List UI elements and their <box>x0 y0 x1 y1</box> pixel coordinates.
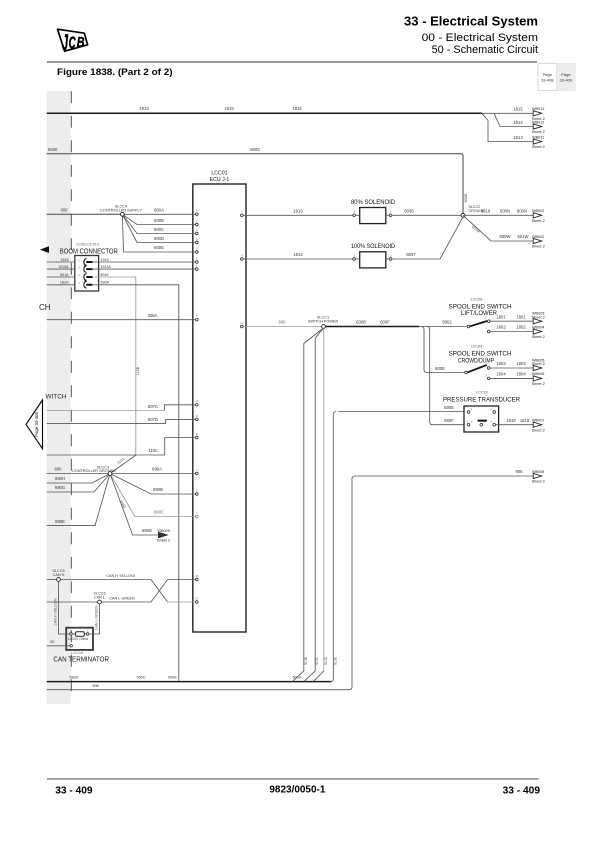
off-page arrow WB004 <box>532 325 545 339</box>
node SLCC5 CAN H <box>52 569 64 582</box>
svg-text:Page 33-408: Page 33-408 <box>34 411 39 436</box>
svg-text:600B: 600B <box>356 320 366 325</box>
svg-text:LIFT/LOWER: LIFT/LOWER <box>461 310 497 317</box>
ECU pins 1-7 (left, supply & boom inputs) <box>196 209 199 271</box>
svg-text:LCC09: LCC09 <box>471 345 483 349</box>
wire 800 from page edge <box>47 207 121 214</box>
svg-text:1915: 1915 <box>224 106 234 111</box>
ECU pin 12 (807D) <box>195 414 199 421</box>
svg-text:CAN L: CAN L <box>94 595 105 599</box>
ECU pins (right: 1913,1914) <box>241 210 244 261</box>
svg-text:910C: 910C <box>315 656 319 665</box>
off-page arrow WB009 <box>157 529 170 543</box>
svg-text:910D: 910D <box>324 656 328 665</box>
svg-text:6019: 6019 <box>481 208 491 213</box>
wire CAN L green <box>47 580 196 603</box>
svg-text:1818: 1818 <box>520 418 530 423</box>
svg-text:LCC10: LCC10 <box>476 390 488 394</box>
svg-text:807C: 807C <box>148 404 158 409</box>
svg-text:6030: 6030 <box>48 147 58 152</box>
svg-text:CONTROLLER SUPPLY: CONTROLLER SUPPLY <box>100 209 142 213</box>
wire 1913A boom row2 to ECU <box>93 268 195 270</box>
svg-text:120.00 Ohms: 120.00 Ohms <box>68 637 89 641</box>
wire 6019/600N to WB001 <box>465 208 533 215</box>
svg-text:WB006: WB006 <box>532 372 544 376</box>
svg-text:SWITCH POWER: SWITCH POWER <box>308 320 339 324</box>
wire CAN L drop to terminator <box>89 604 100 634</box>
svg-text:33-409: 33-409 <box>560 78 573 83</box>
boom connector row 1: 1815/1913 <box>47 258 109 266</box>
svg-text:Sheet 2: Sheet 2 <box>532 480 545 484</box>
wire 801E/110B boom row3 down <box>93 277 136 455</box>
boom connector gang links <box>85 264 87 266</box>
svg-text:0D: 0D <box>50 640 55 644</box>
wire 690C (grey) <box>110 474 197 517</box>
wire 600 (grey) <box>243 320 321 327</box>
switch LCC09 SPOOL END SWITCH CROWD/DUMP <box>449 345 512 380</box>
wire 690H <box>47 474 110 484</box>
off-page wedge at boom connector <box>40 246 49 253</box>
switch LCC08 SPOOL END SWITCH LIFT/LOWER <box>449 297 512 333</box>
svg-text:182H: 182H <box>60 281 69 285</box>
svg-text:WITCH: WITCH <box>46 394 67 401</box>
wire CAN H yellow <box>47 574 196 602</box>
off-page arrow WB012 <box>532 120 545 134</box>
svg-text:LCC01: LCC01 <box>211 171 227 177</box>
svg-text:601W: 601W <box>518 234 529 239</box>
svg-text:908: 908 <box>516 469 524 474</box>
resistor R 120 Ohms <box>68 628 89 640</box>
wire 308A <box>47 313 196 320</box>
svg-text:1802: 1802 <box>516 325 526 330</box>
svg-text:WB012: WB012 <box>532 120 544 124</box>
ECU pins 18,17 (CAN) <box>195 574 199 603</box>
ECU pin 14 (807C) <box>195 399 199 406</box>
svg-text:80% SOLENOID: 80% SOLENOID <box>351 199 395 206</box>
svg-text:Sheet 2: Sheet 2 <box>532 130 545 134</box>
svg-text:801E: 801E <box>101 273 110 277</box>
transducer LCC10 PRESSURE TRANSDUCER <box>443 390 520 432</box>
wire 690F branch to transducer <box>427 327 467 425</box>
svg-text:1915A: 1915A <box>58 265 69 269</box>
svg-text:690B: 690B <box>153 487 163 492</box>
page reference arrow Page 33-408 <box>26 400 43 449</box>
svg-text:1913: 1913 <box>101 258 109 262</box>
svg-text:500A: 500A <box>293 676 302 680</box>
svg-text:600F: 600F <box>380 320 390 325</box>
svg-text:690D: 690D <box>142 528 152 533</box>
svg-text:1815: 1815 <box>292 106 302 111</box>
svg-text:6039: 6039 <box>464 194 468 202</box>
svg-text:1803: 1803 <box>496 361 506 366</box>
svg-text:800D: 800D <box>154 236 164 241</box>
svg-text:1913A: 1913A <box>101 265 112 269</box>
svg-text:Sheet 2: Sheet 2 <box>532 335 545 339</box>
svg-text:CAN TERMINATOR: CAN TERMINATOR <box>53 657 109 664</box>
solenoid L1 80% <box>351 199 395 224</box>
svg-text:690H: 690H <box>55 476 65 481</box>
off-page arrow WB007 <box>532 419 545 433</box>
svg-text:WB008: WB008 <box>532 470 544 474</box>
svg-text:590D: 590D <box>69 676 78 680</box>
page-boundary dashed line <box>70 91 72 703</box>
svg-text:690F: 690F <box>444 418 454 423</box>
wire 800E <box>122 214 195 252</box>
wire 908 rail <box>47 469 534 690</box>
wire 690 <box>47 467 108 474</box>
svg-text:110B: 110B <box>136 366 140 375</box>
ECU pin 11 (110C) <box>195 432 198 439</box>
node SLCC3 CONTROLLER GROUND <box>72 465 116 475</box>
wire 0D stub <box>47 640 73 647</box>
svg-text:WB013: WB013 <box>532 107 544 111</box>
svg-text:807D: 807D <box>148 417 158 422</box>
svg-text:690: 690 <box>55 467 63 472</box>
wire 6030/6000 <box>47 147 468 214</box>
svg-text:WB009: WB009 <box>157 529 169 533</box>
svg-text:600N: 600N <box>517 208 527 213</box>
svg-text:600: 600 <box>279 320 287 325</box>
wire 590C drop <box>304 328 324 682</box>
wire 690E vertical <box>330 412 337 682</box>
svg-text:800B: 800B <box>154 218 164 223</box>
svg-text:Sheet 2: Sheet 2 <box>532 219 545 223</box>
wire 600B/600F (thick) <box>325 320 419 327</box>
wire 590B drop <box>292 328 323 682</box>
ECU pin 5 (308A) <box>196 314 199 321</box>
off-page arrow WB011 <box>532 135 545 149</box>
svg-text:LCC08: LCC08 <box>471 297 483 301</box>
svg-text:WB011: WB011 <box>532 135 544 139</box>
svg-text:800E: 800E <box>154 245 164 250</box>
wire 690E to transducer <box>338 405 467 412</box>
svg-text:690C: 690C <box>154 510 164 515</box>
svg-text:00 - Electrical System: 00 - Electrical System <box>422 32 539 44</box>
wire 1803 to WB005 <box>490 361 533 368</box>
wire 1815 to WB013 <box>482 107 533 114</box>
svg-text:600E: 600E <box>435 366 445 371</box>
off-page arrow WB001 <box>532 209 545 223</box>
wire 1818 to WB007 <box>496 418 534 425</box>
svg-text:1801: 1801 <box>516 314 526 319</box>
svg-text:600N: 600N <box>500 208 510 213</box>
svg-text:1802: 1802 <box>496 325 506 330</box>
node SLCC1 SWITCH POWER <box>308 316 339 329</box>
svg-text:100% SOLENOID: 100% SOLENOID <box>351 243 395 250</box>
wire 1914 to 100% solenoid <box>243 252 353 259</box>
svg-text:PRESSURE TRANSDUCER: PRESSURE TRANSDUCER <box>443 397 520 404</box>
svg-text:18: 18 <box>195 574 199 578</box>
svg-text:908: 908 <box>92 684 98 688</box>
svg-text:LC05 LCC10 3: LC05 LCC10 3 <box>77 243 100 247</box>
wire 1801 to WB003 <box>490 314 533 321</box>
svg-text:910B: 910B <box>304 656 308 665</box>
page tab 33-408 <box>538 64 557 91</box>
off-page arrow WB008 <box>532 470 545 484</box>
svg-text:CONTROLLER GROUND: CONTROLLER GROUND <box>72 469 116 473</box>
svg-text:CAN H YELLOW: CAN H YELLOW <box>106 574 135 578</box>
svg-text:Sheet 2: Sheet 2 <box>532 245 545 249</box>
svg-text:WB002: WB002 <box>532 235 544 239</box>
svg-text:Figure 1838. (Part 2 of 2): Figure 1838. (Part 2 of 2) <box>57 67 173 77</box>
svg-text:33 - 409: 33 - 409 <box>503 785 541 797</box>
wire 690E <box>47 474 110 526</box>
off-page arrow WB005 <box>532 358 545 370</box>
svg-text:1815: 1815 <box>513 107 523 112</box>
page tab 33-409 (current) <box>557 64 576 91</box>
wire 1802 to WB004 <box>490 325 533 332</box>
boom connector row 2: 1915A/1913A <box>47 265 112 273</box>
svg-text:WB007: WB007 <box>532 419 544 423</box>
svg-text:1818: 1818 <box>506 418 516 423</box>
wire 590A boom row4 down to 590 rail <box>93 285 179 682</box>
wire 807D <box>47 417 196 424</box>
boom connector row 3: 801A/801E <box>47 273 110 281</box>
wire 807C <box>47 404 196 411</box>
svg-text:5802: 5802 <box>442 320 452 325</box>
svg-text:17: 17 <box>240 321 244 325</box>
wire 690B <box>110 474 195 495</box>
svg-text:33 - Electrical System: 33 - Electrical System <box>404 15 538 29</box>
svg-text:Page: Page <box>561 72 571 77</box>
svg-text:CAN L GREEN: CAN L GREEN <box>109 596 135 600</box>
svg-text:690G: 690G <box>55 485 65 490</box>
svg-text:CH: CH <box>39 303 51 312</box>
svg-text:1804: 1804 <box>516 372 526 377</box>
svg-text:CAN H: CAN H <box>53 573 65 577</box>
svg-text:50 - Schematic Circuit: 50 - Schematic Circuit <box>432 44 538 56</box>
svg-text:J: J <box>62 30 68 55</box>
svg-text:Sheet 2: Sheet 2 <box>532 382 545 386</box>
footer page numbers <box>55 783 540 796</box>
svg-text:CAN L GREEN: CAN L GREEN <box>95 605 99 630</box>
JCB logo <box>58 29 88 55</box>
solenoid L2 100% <box>351 243 395 268</box>
wire 1913 boom row1 to ECU <box>93 261 195 263</box>
svg-text:Page: Page <box>543 72 553 77</box>
svg-text:17: 17 <box>195 596 199 600</box>
svg-text:6000: 6000 <box>250 147 260 152</box>
svg-text:Sheet 2: Sheet 2 <box>532 145 545 149</box>
svg-text:6037: 6037 <box>406 252 416 257</box>
op-amp/controller U1 LCC01 ECU J-1 box <box>193 171 246 633</box>
svg-text:B: B <box>77 33 85 50</box>
svg-text:590C: 590C <box>136 676 145 680</box>
boom connector label <box>60 243 118 256</box>
svg-text:590E: 590E <box>168 676 177 680</box>
wire 800C <box>122 214 195 233</box>
off-page arrow WB013 <box>532 107 545 121</box>
svg-text:1913: 1913 <box>293 208 303 213</box>
off-page arrow WB006 <box>532 372 545 386</box>
wire 690D to WB009 <box>110 474 159 536</box>
boom connector row 4: 182H/590A <box>47 281 110 289</box>
wire 6037 <box>392 217 463 259</box>
connector LC05/LCC10 box <box>75 256 99 292</box>
ECU pins 4,8,7 (ground group) <box>196 468 199 518</box>
svg-text:ECU J-1: ECU J-1 <box>210 177 230 183</box>
wire 1913 to 80% solenoid <box>243 208 353 215</box>
footer rule <box>47 778 539 780</box>
svg-text:590A: 590A <box>101 281 110 285</box>
svg-text:1801: 1801 <box>496 314 506 319</box>
node SLCC2 GROUND <box>461 205 485 217</box>
wire 590 rail (thick) <box>47 676 332 682</box>
wire 1804 to WB006 <box>490 372 533 379</box>
svg-text:800C: 800C <box>154 227 164 232</box>
svg-text:9823/0050-1: 9823/0050-1 <box>269 783 325 795</box>
svg-text:1804: 1804 <box>496 372 506 377</box>
header title block <box>404 15 538 56</box>
svg-text:1813: 1813 <box>513 135 523 140</box>
svg-text:CROWD/DUMP: CROWD/DUMP <box>458 357 494 364</box>
wire 690G <box>47 474 110 493</box>
svg-text:1803: 1803 <box>516 361 526 366</box>
wire 600 drop (grey) <box>313 328 328 681</box>
svg-text:690E: 690E <box>55 519 65 524</box>
wire CAN H drop to terminator <box>54 581 70 634</box>
svg-text:C: C <box>69 34 76 54</box>
svg-text:801A: 801A <box>60 273 69 277</box>
wire 1813 branch to WB011 <box>482 113 533 141</box>
svg-text:1913: 1913 <box>139 106 149 111</box>
wire 110C <box>47 438 196 456</box>
wire 690A to ECU <box>113 467 196 474</box>
wire 6035 <box>392 208 461 215</box>
wire 800B <box>122 214 195 224</box>
svg-text:WB001: WB001 <box>532 209 544 213</box>
svg-text:Sheet 2: Sheet 2 <box>532 428 545 432</box>
wire 1814 branch to WB012 <box>494 113 533 126</box>
wire 110A diagonal to node <box>110 455 136 474</box>
page-boundary grey band <box>47 91 71 704</box>
svg-text:1814: 1814 <box>513 120 523 125</box>
svg-text:690A: 690A <box>152 467 162 472</box>
svg-text:110C: 110C <box>148 448 158 453</box>
svg-text:11: 11 <box>195 432 198 436</box>
svg-text:800A: 800A <box>154 207 164 212</box>
header rule <box>47 61 537 63</box>
svg-text:1815: 1815 <box>61 258 69 262</box>
off-page arrow WB003 <box>532 312 545 324</box>
wire 600E branch to crowd/dump <box>421 327 465 373</box>
svg-text:BOOM CONNECTOR: BOOM CONNECTOR <box>60 249 118 256</box>
CAN terminator LCC14 box <box>66 628 93 650</box>
node SLCC6 CAN L <box>93 591 105 604</box>
wire 5802 to lift/lower switch <box>419 320 466 327</box>
svg-text:33 - 409: 33 - 409 <box>55 785 93 797</box>
off-page arrow WB002 <box>532 235 545 249</box>
svg-text:1914: 1914 <box>293 252 303 257</box>
svg-text:12: 12 <box>195 414 199 418</box>
svg-text:33-408: 33-408 <box>541 78 554 83</box>
node SLCC4 CONTROLLER SUPPLY <box>100 204 142 216</box>
svg-text:690E: 690E <box>444 405 454 410</box>
wire 1913/1915/1815 (thick top bus) <box>47 106 482 113</box>
svg-text:Sheet 2: Sheet 2 <box>532 362 545 366</box>
ECU pin 17 (600 out) <box>240 321 244 328</box>
svg-text:LCC14: LCC14 <box>71 651 83 655</box>
svg-text:Sheet 2: Sheet 2 <box>532 315 545 319</box>
svg-text:910E: 910E <box>334 656 338 665</box>
wire 800A <box>124 207 195 214</box>
svg-text:800: 800 <box>61 207 69 212</box>
svg-text:Sheet 2: Sheet 2 <box>157 539 170 543</box>
wire 800D <box>122 214 195 242</box>
wire 601M/600W to WB002 <box>463 215 533 241</box>
svg-text:WB004: WB004 <box>532 325 544 329</box>
svg-text:600W: 600W <box>500 234 511 239</box>
svg-text:6035: 6035 <box>404 208 414 213</box>
svg-text:308A: 308A <box>148 313 158 318</box>
svg-text:14: 14 <box>195 399 199 403</box>
